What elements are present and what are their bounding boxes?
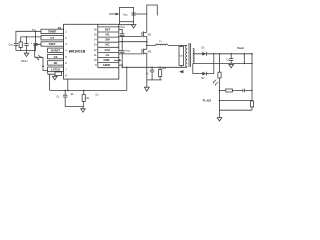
resistor Rled xyxy=(218,72,221,78)
node pin2-Cct junction xyxy=(26,36,28,38)
wire under-IC ground rail xyxy=(50,89,127,91)
capacitor Cr xyxy=(150,67,154,80)
svg-text:14: 14 xyxy=(94,38,97,42)
svg-text:HG: HG xyxy=(105,33,109,37)
opto emitter arrow xyxy=(42,66,44,69)
transistor M1 high-side MOSFET xyxy=(142,31,147,37)
resistor Rt1 xyxy=(20,47,22,50)
wire pin3 FSET xyxy=(35,44,41,57)
svg-text:Cs: Cs xyxy=(96,94,100,97)
svg-text:Rt: Rt xyxy=(71,93,74,96)
node sense top junction xyxy=(244,53,246,55)
svg-text:Css: Css xyxy=(9,43,14,46)
opto light arrows xyxy=(36,55,42,60)
wire opto emitter xyxy=(43,68,55,74)
transistor Q-opto phototransistor xyxy=(35,57,43,66)
wire primary return xyxy=(122,66,187,68)
svg-text:D2: D2 xyxy=(201,77,205,80)
opto LED arrows xyxy=(213,80,218,85)
svg-text:GND: GND xyxy=(104,58,110,62)
node Ct-rail junction xyxy=(64,90,66,92)
node return-line junction xyxy=(121,67,123,69)
node rail-tap junction xyxy=(251,63,253,65)
wire pin1 TIMER xyxy=(16,31,41,43)
arrow GND pin10 xyxy=(114,59,119,61)
U1 right pin numbers 16-9 xyxy=(94,27,98,67)
capacitor Cvcc pin12 xyxy=(119,42,125,68)
diode D1 xyxy=(202,52,206,56)
capacitor Ct xyxy=(63,90,67,106)
wire BST pin16 xyxy=(119,29,122,33)
svg-text:Cvcc: Cvcc xyxy=(125,50,131,53)
transistor M2 low-side MOSFET xyxy=(142,49,147,55)
arrow current mark xyxy=(179,70,183,73)
svg-text:9: 9 xyxy=(95,63,97,67)
svg-text:Vout: Vout xyxy=(237,46,243,50)
U1 left pin label texts xyxy=(48,30,60,72)
svg-text:D1: D1 xyxy=(202,46,206,49)
svg-text:Cr: Cr xyxy=(146,73,149,76)
svg-text:BST: BST xyxy=(105,27,111,31)
wire compensation branch xyxy=(220,90,253,92)
capacitor Cvdc plates xyxy=(132,13,136,15)
svg-text:6: 6 xyxy=(65,61,67,65)
wire divider bottom xyxy=(220,109,253,111)
transformer T1 core xyxy=(189,43,191,67)
svg-text:ABNF: ABNF xyxy=(103,63,111,67)
svg-text:12: 12 xyxy=(94,48,97,52)
capacitor Ccomp plates xyxy=(243,89,245,93)
wire Cr-Rcs bottom xyxy=(147,79,162,81)
node D2-rail junction xyxy=(213,53,215,55)
node Rcs junction xyxy=(159,67,161,69)
capacitor Cbst plates xyxy=(120,34,124,42)
svg-text:SS: SS xyxy=(58,26,62,30)
svg-text:SW: SW xyxy=(105,38,110,42)
wire Vcc node drop xyxy=(120,22,134,25)
svg-text:CT: CT xyxy=(50,36,54,40)
svg-text:Ct: Ct xyxy=(57,96,60,99)
transformer T1 secondary winding xyxy=(193,48,194,73)
svg-text:10: 10 xyxy=(94,58,97,62)
U1 left pin numbers 1-8 xyxy=(65,30,67,78)
svg-text:7: 7 xyxy=(65,67,67,71)
wire HG pin15 xyxy=(119,36,142,38)
op-amp U1 HR1001B IC body xyxy=(64,24,119,79)
node Cbst-SW junction xyxy=(121,41,123,43)
resistor Rcomp xyxy=(226,89,233,92)
U1 right pin labels xyxy=(103,27,111,67)
node FB-rail junction xyxy=(219,53,221,55)
svg-text:M2: M2 xyxy=(148,50,152,54)
arrow into Vcc box xyxy=(109,13,116,15)
resistor Rdiv on rail xyxy=(250,101,253,107)
wire secondary top rail xyxy=(193,53,252,55)
diode D2 xyxy=(202,72,206,76)
svg-text:16: 16 xyxy=(94,27,97,31)
node comp-rail junction xyxy=(251,90,253,92)
wire ABNF pin9 xyxy=(119,64,122,66)
node Co junction xyxy=(230,53,232,55)
U1 right label box separators xyxy=(98,27,119,68)
svg-text:Rs: Rs xyxy=(86,97,90,100)
wire switch node to tank xyxy=(147,44,187,46)
svg-text:8: 8 xyxy=(65,74,67,78)
svg-text:SD: SD xyxy=(54,61,58,65)
svg-text:BURST: BURST xyxy=(51,49,61,53)
svg-text:LG: LG xyxy=(106,53,110,57)
ground left-bus xyxy=(24,51,29,57)
svg-text:13: 13 xyxy=(94,43,97,47)
wire sense link xyxy=(243,54,245,64)
wire LG pin11 xyxy=(119,53,142,55)
svg-text:+: + xyxy=(31,42,33,45)
wire output right rail xyxy=(251,54,253,110)
svg-text:M1: M1 xyxy=(148,32,152,36)
svg-text:LATCH: LATCH xyxy=(51,67,60,71)
U1 left pin label boxes xyxy=(41,29,64,33)
supply box Vcc xyxy=(120,7,134,21)
pin 8 small box xyxy=(55,72,62,76)
svg-text:Lr: Lr xyxy=(159,40,161,43)
ground TL431 xyxy=(217,118,222,121)
svg-text:Rfmin: Rfmin xyxy=(21,60,28,63)
node Rs-rail junction xyxy=(83,90,85,92)
ground Co xyxy=(229,64,234,67)
svg-text:5: 5 xyxy=(65,55,67,59)
svg-text:CS: CS xyxy=(54,55,58,59)
inductor Lm box xyxy=(179,47,184,66)
svg-text:HR1001B: HR1001B xyxy=(69,49,86,53)
node ABNF junction xyxy=(121,64,123,66)
wire pin2 CT xyxy=(21,37,41,42)
wire Vcc cap to bus xyxy=(136,13,147,15)
node ref-rail junction xyxy=(251,100,253,102)
wire feedback dropper xyxy=(219,54,221,118)
svg-text:15: 15 xyxy=(94,33,97,37)
svg-text:VCC: VCC xyxy=(105,48,111,52)
wire Ct-Rs bottom xyxy=(65,106,84,108)
svg-text:4: 4 xyxy=(65,49,67,53)
node return-drop junction xyxy=(126,67,128,69)
ground opto emitter xyxy=(53,74,58,80)
svg-text:2: 2 xyxy=(65,36,67,40)
node Cr junction xyxy=(151,67,153,69)
capacitor Cf electrolytic xyxy=(33,31,37,50)
wire emitter to CS rail xyxy=(49,74,51,90)
wire IC bottom to rail xyxy=(67,79,69,90)
wire secondary bottom line xyxy=(193,73,214,75)
wire input bus xyxy=(147,5,158,28)
ground half-bridge xyxy=(144,87,149,91)
svg-text:Vcc: Vcc xyxy=(123,13,128,17)
inductor Lr xyxy=(156,44,169,45)
U1 internal label column divider xyxy=(97,24,99,67)
resistor Rcs xyxy=(159,67,161,80)
node pin1-Cf junction xyxy=(35,31,37,33)
svg-text:11: 11 xyxy=(94,53,97,57)
transformer T1 primary winding xyxy=(186,45,187,67)
svg-text:FSET: FSET xyxy=(49,42,56,46)
node sense bottom junction xyxy=(244,63,246,65)
capacitor Co xyxy=(229,54,233,64)
capacitor Css plates xyxy=(14,44,18,51)
node SW-leg junction xyxy=(146,41,148,43)
node rail-top junction xyxy=(251,53,253,55)
svg-text:TIMER: TIMER xyxy=(48,30,56,34)
node IC-rail junction xyxy=(67,90,69,92)
wire half-bridge leg xyxy=(146,28,148,87)
wire D2 riser xyxy=(213,54,215,74)
wire center tap line xyxy=(193,62,252,64)
svg-text:3: 3 xyxy=(65,42,67,46)
wire TL431 ref xyxy=(220,100,253,102)
svg-text:TL431: TL431 xyxy=(203,99,212,103)
ground under Rs xyxy=(81,107,86,113)
wire SW pin14 xyxy=(119,41,147,43)
svg-text:Lm: Lm xyxy=(180,55,183,58)
wire return-to-rail drop xyxy=(126,67,128,90)
wire ground bus left xyxy=(16,50,36,52)
capacitor Cct xyxy=(24,37,28,51)
resistor Rs xyxy=(83,90,85,106)
ground Vdc node xyxy=(131,22,136,28)
svg-text:1: 1 xyxy=(65,30,67,34)
node switch-node junction xyxy=(146,45,148,47)
node FB mid junction xyxy=(219,90,221,92)
node ref junction xyxy=(219,100,221,102)
svg-text:NC: NC xyxy=(106,43,110,47)
svg-text:Cbst: Cbst xyxy=(119,26,124,29)
